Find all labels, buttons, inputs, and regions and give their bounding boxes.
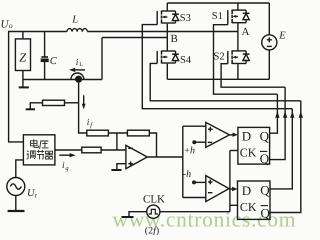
resistor R2 feedback <box>127 130 149 136</box>
svg-text:-h: -h <box>183 169 191 180</box>
wire: node B horizontal <box>102 37 167 39</box>
resistor R1 <box>87 130 109 136</box>
junction dot iL sense node <box>75 76 82 83</box>
wire: R1 to R2 <box>108 132 127 134</box>
wire: FF1 Qbar out <box>270 87 286 159</box>
wire: Ur bottom stem <box>15 196 17 211</box>
inductor L <box>67 29 87 32</box>
wire: R3 to op-amp inverting input <box>101 149 126 151</box>
wire: Rs right to sense vertical <box>65 102 79 104</box>
wire: comp1 output to FF1 D <box>230 134 234 136</box>
wire: Ur to regulator <box>16 160 24 178</box>
capacitor C <box>41 32 48 80</box>
wire: node B vertical x=102 <box>101 38 103 80</box>
op-amp U1 <box>126 145 147 168</box>
wire: signal vertical to comparators <box>182 126 184 197</box>
svg-text:Q: Q <box>261 205 271 220</box>
wire: -h dot to comp2 <box>194 181 206 183</box>
E plus sign <box>267 37 272 42</box>
wire: comparator1 plus input <box>183 125 206 127</box>
bridge top rail <box>167 2 269 4</box>
transistor S3 <box>157 11 179 25</box>
wire: comp2 output to FF2 D <box>229 188 232 190</box>
transistor S2 <box>228 50 250 64</box>
wire: S3 gate to FF2 Q line <box>142 25 292 109</box>
comparator U3 <box>206 176 229 202</box>
arrowhead drive 1 <box>275 111 279 117</box>
svg-text:(2f): (2f) <box>145 226 159 236</box>
op-amp plus sign <box>128 161 133 166</box>
svg-text:g: g <box>65 165 69 172</box>
svg-text:f: f <box>90 122 93 129</box>
svg-text:Q: Q <box>260 128 270 143</box>
comp1 minus sign <box>208 141 212 143</box>
arrow iL <box>69 68 85 72</box>
svg-text:D: D <box>242 183 251 198</box>
op-amp minus sign <box>128 147 133 149</box>
svg-text:S3: S3 <box>180 13 191 24</box>
resistor R3 <box>82 147 101 153</box>
clock source circle <box>147 205 160 218</box>
wire: FF1 Q out <box>270 94 278 133</box>
clock glyph <box>149 209 159 214</box>
wire: S4 gate to FF2 Qbar line <box>150 63 301 100</box>
flip-flop FF1 box <box>238 127 270 164</box>
wire: inductor to node A <box>87 31 238 33</box>
node -h threshold dot <box>192 180 196 184</box>
arrowhead drive 3 <box>290 111 294 117</box>
resistor Rs shunt <box>43 100 65 105</box>
current-sensor hump <box>71 73 84 79</box>
FF1 Qbar overline <box>260 150 267 152</box>
svg-text:B: B <box>171 33 178 45</box>
node +h threshold dot <box>192 140 196 144</box>
wire: left leg S4 source <box>166 64 168 80</box>
E minus sign <box>267 45 272 47</box>
gate routing <box>142 25 303 118</box>
ground at op-amp <box>111 169 121 171</box>
wire: Z top stem <box>22 32 24 39</box>
arrowhead into FF1 D <box>233 133 238 137</box>
wire: right leg S2 source <box>237 64 239 80</box>
regulator text 调节器 <box>27 150 53 160</box>
wire: clock vertical <box>229 151 231 212</box>
wire: right leg node A <box>237 23 239 51</box>
arrow ig <box>59 153 76 157</box>
svg-text:o: o <box>9 21 13 30</box>
svg-text:Q: Q <box>260 151 270 166</box>
svg-text:Z: Z <box>19 51 27 65</box>
wire: summing node drop <box>116 133 118 150</box>
wire: left leg mid B <box>166 24 168 51</box>
svg-text:L: L <box>71 15 78 26</box>
svg-text:E: E <box>278 31 286 42</box>
ground under Z <box>19 86 29 88</box>
svg-text:CK: CK <box>240 145 257 159</box>
wire: comparator2 minus input <box>183 197 206 199</box>
arrow if down <box>82 95 86 109</box>
wire: S1 gate to FF1 Q line <box>214 25 278 95</box>
wire: E bottom stem <box>268 50 270 79</box>
svg-text:S2: S2 <box>214 52 225 63</box>
wire: non-inverting input to ground <box>117 164 126 170</box>
FF2 Qbar overline <box>261 205 268 207</box>
svg-text:S1: S1 <box>212 11 223 22</box>
svg-text:A: A <box>242 26 250 38</box>
svg-text:CK: CK <box>240 200 257 214</box>
comp2 minus sign <box>208 192 212 194</box>
ground at Rs <box>26 108 35 110</box>
wire: S2 gate to FF1 Qbar line <box>221 64 285 87</box>
bridge bottom rail <box>167 78 269 80</box>
regulator text 电压 <box>31 139 49 149</box>
wire: E top stem <box>268 3 270 35</box>
ground at Ur <box>8 210 25 212</box>
flip-flop FF2 box <box>238 181 271 219</box>
source E circle <box>262 35 277 50</box>
MOSFETs <box>157 10 249 64</box>
transistor S1 <box>228 10 250 25</box>
wire: clock left to ground <box>129 212 147 217</box>
wire: right leg drain S1 <box>237 3 239 10</box>
wire: FF2 Qbar out <box>270 101 301 213</box>
AC source Ur <box>7 178 25 196</box>
arrowhead drive 4 <box>299 111 303 117</box>
wire: Z bottom stem <box>22 71 24 88</box>
wire: left leg drain S3 <box>166 3 168 11</box>
comp1 plus sign <box>208 127 213 132</box>
wire: bottom return wire <box>23 79 102 81</box>
wire: Rs left to ground <box>30 103 42 109</box>
impedance Z box <box>15 39 30 71</box>
svg-text:D: D <box>242 128 251 143</box>
wire: sense node down to R1 <box>79 83 87 134</box>
wire: regulator output to R3 <box>55 149 82 151</box>
voltage regulator box <box>23 135 55 165</box>
wire: top output wire Uo to inductor <box>8 31 67 33</box>
svg-text:L: L <box>79 62 83 68</box>
wire: FF1 CK in <box>230 150 238 152</box>
svg-text:C: C <box>50 56 58 67</box>
wire: +h dot to comp1 <box>194 141 206 143</box>
wire: R2 right to output drop <box>149 133 156 157</box>
svg-text:+h: +h <box>184 145 195 156</box>
svg-text:CLK: CLK <box>143 193 165 205</box>
comparator U2 <box>206 122 230 147</box>
wire: clock to CK vertical <box>160 211 230 213</box>
arrowhead drive 2 <box>283 111 287 117</box>
wire: left vertical from Uo node down to regulator input <box>9 32 24 142</box>
wire: FF2 Q out <box>270 109 292 189</box>
sine glyph <box>10 184 21 189</box>
svg-text:Q: Q <box>260 183 270 198</box>
wire: op-amp output <box>147 156 183 158</box>
wire: FF2 CK in <box>230 204 238 206</box>
ground at clock <box>122 216 134 218</box>
svg-text:S4: S4 <box>180 55 192 66</box>
arrowhead into FF2 D <box>232 187 237 191</box>
svg-text:r: r <box>35 192 38 200</box>
comp2 plus sign <box>208 180 213 185</box>
transistor S4 <box>157 51 179 64</box>
